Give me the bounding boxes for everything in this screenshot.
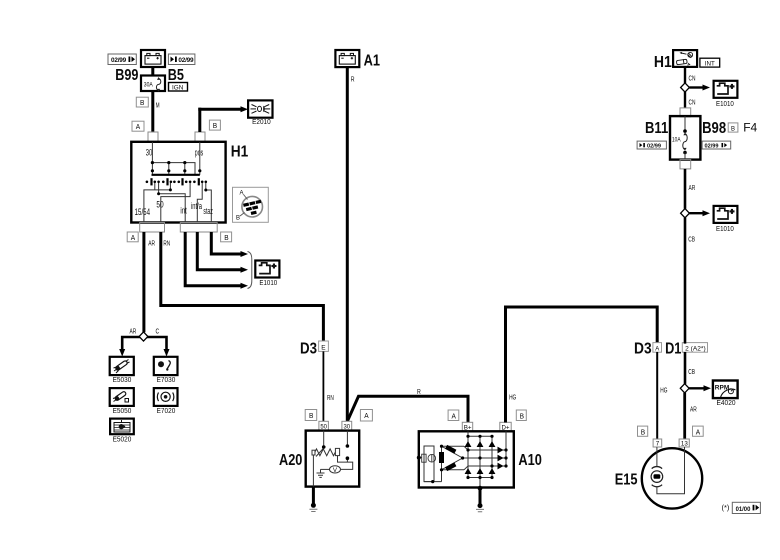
svg-text:E2010: E2010	[252, 117, 271, 126]
svg-text:15/54: 15/54	[135, 207, 150, 217]
svg-text:10A: 10A	[672, 137, 681, 144]
svg-text:C: C	[156, 327, 160, 336]
svg-text:02/99: 02/99	[647, 144, 661, 150]
svg-text:D3: D3	[634, 341, 652, 358]
svg-text:F4: F4	[743, 121, 757, 135]
svg-text:E: E	[321, 345, 326, 352]
svg-text:D1: D1	[665, 341, 681, 358]
svg-text:E7020: E7020	[157, 406, 176, 415]
svg-text:50: 50	[156, 199, 163, 209]
svg-text:E7030: E7030	[157, 375, 176, 384]
svg-text:E5020: E5020	[113, 435, 132, 444]
svg-text:B5: B5	[168, 67, 184, 84]
svg-text:A: A	[655, 345, 660, 352]
svg-text:A: A	[364, 411, 368, 420]
svg-text:A: A	[240, 191, 244, 197]
svg-text:A20: A20	[279, 452, 302, 469]
svg-text:A10: A10	[518, 452, 542, 469]
svg-text:E5050: E5050	[113, 406, 132, 415]
svg-text:HG: HG	[509, 392, 516, 401]
svg-text:AR: AR	[148, 239, 155, 248]
svg-text:B: B	[224, 233, 228, 242]
svg-text:B11: B11	[645, 120, 668, 137]
svg-text:B: B	[213, 121, 217, 130]
svg-text:AR: AR	[130, 327, 137, 336]
svg-text:M: M	[156, 101, 160, 110]
svg-text:B: B	[140, 98, 144, 107]
svg-text:HG: HG	[660, 386, 667, 395]
svg-text:2 (A2*): 2 (A2*)	[685, 346, 706, 352]
svg-text:B: B	[236, 216, 240, 222]
svg-text:H1: H1	[231, 144, 249, 161]
svg-text:E1010: E1010	[716, 224, 734, 233]
svg-text:E4020: E4020	[717, 398, 736, 407]
svg-text:01/00: 01/00	[736, 506, 751, 513]
svg-text:30: 30	[146, 148, 153, 158]
svg-text:IGN: IGN	[172, 84, 184, 91]
svg-text:int/a: int/a	[191, 201, 202, 211]
svg-text:13: 13	[681, 441, 688, 448]
svg-text:B: B	[520, 411, 524, 420]
svg-text:D3: D3	[300, 341, 317, 358]
svg-text:E1010: E1010	[259, 278, 277, 287]
svg-text:RN: RN	[327, 393, 334, 402]
svg-text:B99: B99	[115, 67, 138, 84]
svg-text:A: A	[131, 233, 135, 242]
svg-text:AR: AR	[689, 183, 696, 192]
svg-text:RN: RN	[163, 239, 170, 248]
svg-text:(*): (*)	[722, 503, 730, 512]
svg-text:staz: staz	[203, 206, 213, 216]
svg-text:02/99: 02/99	[178, 57, 194, 64]
svg-text:E1010: E1010	[716, 99, 734, 108]
svg-text:B: B	[309, 411, 313, 420]
svg-text:CB: CB	[688, 235, 695, 244]
svg-text:B: B	[731, 125, 735, 132]
svg-text:R: R	[417, 387, 421, 396]
svg-text:30A: 30A	[144, 81, 154, 88]
svg-text:CN: CN	[689, 98, 696, 107]
svg-text:02/99: 02/99	[705, 144, 719, 150]
svg-text:B98: B98	[702, 120, 726, 137]
svg-text:02/99: 02/99	[111, 57, 127, 64]
svg-text:R: R	[351, 75, 355, 84]
svg-text:A: A	[696, 427, 700, 436]
svg-text:INT: INT	[705, 60, 715, 67]
svg-text:B: B	[641, 427, 645, 436]
svg-text:A: A	[452, 411, 456, 420]
svg-text:E15: E15	[615, 472, 638, 489]
svg-text:E5030: E5030	[113, 375, 132, 384]
svg-text:AR: AR	[690, 405, 697, 414]
svg-text:H1: H1	[654, 54, 672, 71]
svg-text:int: int	[180, 206, 187, 216]
svg-text:CN: CN	[689, 74, 696, 83]
svg-text:CB: CB	[688, 367, 695, 376]
svg-text:A1: A1	[364, 53, 380, 70]
svg-text:A: A	[136, 122, 140, 131]
svg-text:pos: pos	[195, 148, 204, 158]
svg-text:7: 7	[656, 441, 660, 448]
